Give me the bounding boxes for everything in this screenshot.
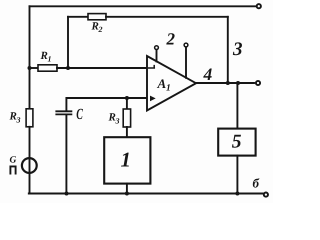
svg-text:5: 5 [232,132,242,153]
label A1 [157,76,171,94]
capacitor C plates [56,111,71,114]
resistor R3 (left) [26,109,33,127]
wire non-inverting input [67,97,148,99]
wire R1 input segment [30,67,39,69]
label terminal b [253,175,260,190]
block 5 [218,129,255,156]
wire R2 branch vertical up [67,17,69,68]
node on left vertical at R1 [28,66,32,70]
wire R3 to generator to bottom bus [29,127,31,194]
wire R1 to inverting input [57,67,147,69]
generator G circle [22,158,37,173]
capacitor C top lead [65,98,67,111]
wire feedback vertical (net 3) [227,17,229,83]
wire left vertical upper [29,6,31,109]
wire R3 right to block 1 [126,127,128,137]
wire block 5 top lead [236,83,238,129]
svg-text:3: 3 [232,39,243,60]
label 2 [166,30,176,49]
node capacitor to bottom bus [65,192,69,196]
op-amp pin 2 circle [184,43,188,47]
svg-text:2: 2 [166,30,176,49]
resistor R2 [88,14,106,20]
resistor R3 (right) [123,109,130,127]
label 4 [203,64,213,84]
op-amp pin 2 lead [185,47,187,78]
node block 5 branch [236,81,240,85]
svg-text:G: G [10,156,17,166]
wire R2 to right corner [106,16,228,18]
svg-text:2: 2 [98,25,103,34]
terminal top-right [257,4,261,8]
resistor R1 [38,65,57,71]
svg-text:3: 3 [16,116,21,125]
label C [76,106,83,123]
svg-text:1: 1 [48,55,52,64]
node block 5 bottom [235,192,239,196]
op-amp pin 1 lead [156,50,158,62]
inverting input mark [149,66,155,68]
svg-text:4: 4 [203,64,213,84]
svg-text:C: C [76,106,83,123]
label R3 right [108,112,120,126]
wire output (net 4) [196,82,254,84]
label R3 left [9,111,21,125]
label R2 [91,21,103,35]
label 3 [232,39,243,60]
label 5 [232,132,242,153]
wire R2 branch horizontal left segment [68,16,88,18]
svg-text:3: 3 [115,117,120,126]
svg-text:1: 1 [121,148,132,172]
terminal bottom-right [264,193,268,197]
wire block 5 to bottom bus [236,156,238,194]
node feedback on output [226,81,230,85]
svg-text:б: б [253,175,260,190]
wire block 1 to bottom bus [126,184,128,194]
label G [10,156,17,166]
wire bottom bus [29,193,264,195]
terminal output right [256,81,260,85]
node R1/R2 junction [66,66,70,70]
wire top bus from left branch to terminal [30,5,257,7]
block 1 [104,137,150,183]
op-amp pin 1 circle [155,46,159,50]
svg-text:1: 1 [166,84,171,94]
label 1 [121,148,132,172]
non-inverting input mark [150,96,156,102]
svg-text:A: A [157,76,167,91]
pulse symbol [10,166,15,173]
node R3 right on non-inverting wire [125,96,129,100]
node block 1 bottom [125,192,129,196]
wire R3 right top lead [126,98,128,109]
capacitor C bottom lead [65,114,67,193]
op-amp A1 [147,56,196,111]
label R1 [40,50,52,64]
